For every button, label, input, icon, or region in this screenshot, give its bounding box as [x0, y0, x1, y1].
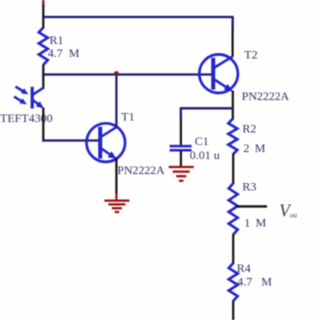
wire: R3 to R4: [232, 234, 234, 264]
label C1: [195, 134, 209, 148]
value 1 M (R3): [244, 216, 266, 230]
junction node (T1 collector / mid rail): [114, 71, 119, 76]
svg-text:1 M: 1 M: [244, 216, 266, 230]
label R1: [50, 33, 64, 47]
wire: mid rail down to phototransistor collector: [42, 75, 44, 90]
wire: R2 to R3: [232, 154, 234, 184]
wire: T2 collector vertical up to rail: [232, 17, 234, 57]
svg-text:C1: C1: [195, 134, 209, 148]
wire: top horizontal rail to T2 collector: [42, 16, 234, 18]
wire: output tap from R3 to Vout: [236, 205, 267, 207]
phototransistor Q1 base bar: [31, 87, 34, 109]
label T2: [244, 47, 257, 61]
ground (T1 emitter): [104, 201, 129, 212]
value 2 M (R2): [243, 141, 265, 155]
label R4: [237, 261, 251, 275]
resistor R1: [39, 28, 48, 65]
wire: C1 bottom plate to ground: [180, 151, 182, 167]
svg-text:PN2222A: PN2222A: [117, 163, 165, 177]
wire: vertical from top rail to R1: [42, 5, 44, 29]
transistor T2 collector stroke: [215, 56, 233, 67]
value 0.01 u (C1): [190, 148, 220, 162]
light arrow 2 into TEFT4300: [14, 97, 27, 105]
transistor T2 emitter stroke with arrow: [215, 80, 233, 92]
power rail stub (red) top: [42, 0, 44, 6]
value 4.7 M (R1): [48, 46, 80, 60]
label TEFT4300: [0, 111, 53, 125]
transistor T2 circle: [199, 54, 238, 93]
transistor T1 circle: [87, 123, 126, 162]
svg-text:TEFT4300: TEFT4300: [0, 111, 53, 125]
phototransistor Q1 emitter stroke with arrow: [33, 100, 44, 108]
wire: down to C1 top plate: [180, 107, 182, 145]
transistor T1 collector stroke: [102, 127, 117, 137]
capacitor C1 top plate: [170, 145, 192, 148]
wire: mid horizontal rail (R1/T1 collector to T2 base): [42, 73, 212, 75]
wire: T2 emitter down to R2: [232, 91, 234, 120]
label Vout: [279, 201, 297, 221]
svg-text:T2: T2: [244, 47, 257, 61]
label R3: [242, 179, 256, 193]
svg-text:4.7 M: 4.7 M: [237, 274, 272, 288]
wire: phototransistor emitter down: [42, 108, 44, 142]
transistor T2 base bar: [211, 58, 215, 90]
light arrow 1 into TEFT4300: [16, 87, 29, 95]
label R2: [242, 121, 256, 135]
wire: below R4 to bottom edge: [232, 301, 234, 320]
label PN2222A (T2): [242, 89, 290, 103]
transistor T1 base bar: [98, 127, 102, 159]
svg-text:Vou: Vou: [279, 201, 297, 221]
svg-text:R3: R3: [242, 179, 256, 193]
label T1: [121, 109, 134, 123]
phototransistor Q1 collector stroke: [33, 88, 44, 95]
svg-text:2 M: 2 M: [243, 141, 265, 155]
value 4.7 M (R4): [237, 274, 272, 288]
wire: horizontal to T1 base: [43, 139, 99, 141]
ground (C1): [169, 167, 194, 181]
wire: horizontal from C1 to T2 emitter: [181, 107, 234, 109]
wire: T1 collector up to junction: [115, 75, 117, 128]
svg-text:R4: R4: [237, 261, 251, 275]
resistor R2: [228, 119, 237, 155]
resistor R3: [229, 183, 238, 234]
svg-text:PN2222A: PN2222A: [242, 89, 290, 103]
wire: T1 emitter down to ground: [115, 158, 117, 200]
transistor T1 emitter stroke with arrow: [102, 149, 117, 159]
svg-text:R2: R2: [242, 121, 256, 135]
svg-text:T1: T1: [121, 109, 134, 123]
label PN2222A (T1): [117, 163, 165, 177]
capacitor C1 bottom plate: [170, 149, 192, 152]
svg-text:0.01 u: 0.01 u: [190, 148, 220, 162]
svg-text:4.7 M: 4.7 M: [48, 46, 80, 60]
wire: R1 bottom to mid rail: [42, 65, 44, 76]
resistor R4: [229, 263, 238, 301]
